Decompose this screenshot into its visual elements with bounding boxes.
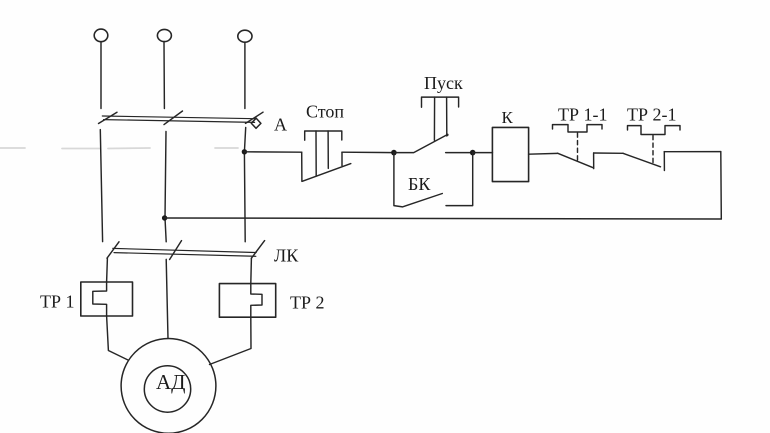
contactor LK linkage bar [113, 248, 256, 256]
wire coil K to TR1-1 [529, 152, 558, 155]
pushbutton Pusk blade tip dot [446, 134, 449, 137]
wire BK right branch [446, 153, 473, 206]
node C junction dot [391, 150, 397, 156]
contact TR1-1 fixed tick [593, 153, 595, 169]
heater TR2 box [219, 284, 275, 318]
svg-text:Стоп: Стоп [306, 102, 344, 122]
svg-text:Пуск: Пуск [424, 73, 463, 93]
node D junction dot [470, 150, 476, 156]
switch A blade pole3 [246, 112, 264, 123]
wire phase3 stem [244, 42, 246, 108]
scan artifact faint line [0, 147, 238, 150]
wire phase2 stem [163, 42, 165, 109]
svg-text:ТР 2-1: ТР 2-1 [627, 105, 677, 125]
pushbutton Pusk plunger [434, 97, 446, 140]
terminal L3 [238, 30, 252, 42]
wire phase2 middle [165, 132, 166, 242]
svg-text:АД: АД [156, 370, 186, 394]
contactor LK blade pole3 [251, 241, 264, 259]
wire BK left branch [394, 153, 403, 207]
wire phase2 lower [166, 259, 168, 338]
heater TR2 element [251, 284, 262, 318]
pushbutton Stop right post [341, 152, 343, 165]
svg-text:ТР 1-1: ТР 1-1 [558, 105, 608, 125]
pushbutton Pusk actuator bracket [422, 97, 459, 107]
contact TR2-1 dashed link [652, 136, 654, 164]
wire phase3 middle [244, 128, 245, 242]
wire bottom return [165, 218, 722, 219]
pushbutton Stop plunger [316, 131, 328, 176]
pushbutton Pusk blade [394, 135, 447, 153]
terminal L1 [94, 29, 108, 42]
wire right edge down [720, 152, 723, 219]
contact BK blade [404, 194, 443, 207]
svg-text:ТР 1: ТР 1 [40, 292, 75, 312]
switch A handle [251, 118, 261, 128]
contactor LK blade pole1 [107, 242, 119, 258]
motor AD outer circle [121, 339, 216, 433]
wire phase1 lower [106, 258, 109, 282]
wire Stop to node C [342, 151, 394, 153]
wire phase1 stem [100, 42, 102, 109]
switch A blade pole1 [99, 112, 118, 123]
svg-text:БК: БК [408, 174, 431, 194]
svg-text:ЛК: ЛК [274, 246, 299, 266]
svg-text:ТР 2: ТР 2 [290, 293, 325, 313]
svg-text:А: А [274, 115, 287, 135]
terminal L2 [157, 29, 171, 41]
pushbutton Stop actuator bracket [305, 131, 342, 140]
node B junction dot [162, 215, 167, 220]
contact TR1-1 release bracket [553, 125, 603, 132]
wire TR2-1 to right edge [664, 151, 721, 153]
wire TR1 to motor [107, 316, 128, 360]
wire phase1 middle [100, 130, 102, 242]
wire node D to coil K [473, 152, 493, 154]
contact TR1-1 dashed link [577, 133, 579, 163]
svg-text:К: К [502, 108, 514, 127]
node A junction dot [242, 149, 247, 154]
switch A blade pole2 [164, 111, 183, 125]
pushbutton Pusk right wire [446, 152, 473, 154]
contact TR2-1 release bracket [628, 126, 681, 135]
heater TR1 element [93, 282, 107, 316]
wire TR1-1 to TR2-1 [594, 152, 623, 154]
switch A linkage bar [102, 116, 255, 122]
pushbutton Stop left post [301, 152, 303, 181]
contact TR2-1 fixed tick [663, 152, 665, 171]
wire node A to Stop [244, 151, 301, 153]
heater TR1 box [81, 282, 133, 316]
contact TR2-1 blade [623, 153, 661, 167]
motor AD inner circle [144, 366, 190, 412]
contact TR1-1 blade [558, 153, 594, 168]
pushbutton Stop blade [303, 164, 351, 182]
wire TR2 to motor [210, 317, 252, 364]
wire phase3 lower [250, 258, 253, 283]
contactor LK blade pole2 [170, 241, 182, 260]
coil K [492, 127, 528, 181]
